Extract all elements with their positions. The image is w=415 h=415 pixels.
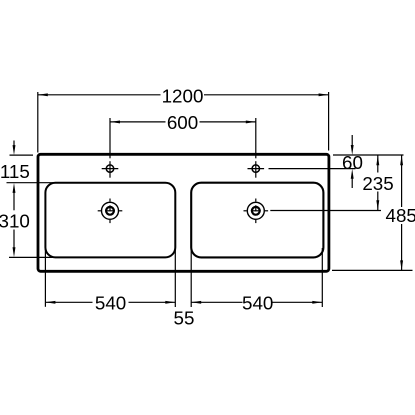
- left tap hole: [102, 161, 119, 178]
- 115 dimension line segments: [13, 141, 15, 148]
- svg-text:115: 115: [0, 161, 30, 182]
- arrowheads: [13, 93, 404, 303]
- 60 lower line from right tap hole: [269, 168, 356, 170]
- bottom extension lines: [44, 249, 46, 307]
- svg-text:235: 235: [362, 173, 393, 194]
- 310 dimension line segments: [13, 189, 15, 210]
- 235 arrows: [376, 155, 379, 165]
- bottom right reference line: [332, 269, 413, 271]
- 600 extension lines: [109, 118, 111, 158]
- 600 dimension line: [110, 121, 166, 123]
- 310 arrows: [13, 183, 16, 193]
- svg-text:60: 60: [342, 152, 363, 173]
- svg-text:55: 55: [174, 307, 195, 328]
- 1200 dimension line: [38, 94, 161, 96]
- left bowl: [45, 183, 175, 258]
- 60 arrows (outside): [351, 145, 354, 155]
- left reference ticks: [10, 154, 34, 156]
- 1200 extension lines: [37, 92, 39, 153]
- drain level reference line: [270, 210, 381, 212]
- right drain hole: [244, 199, 269, 224]
- right top reference line: [333, 154, 404, 156]
- bottom dimension line 540 left: [45, 301, 92, 303]
- basin outer rim: [38, 154, 329, 271]
- right tap hole: [248, 161, 265, 178]
- left drain hole: [98, 199, 123, 224]
- 600: [110, 120, 120, 123]
- 540 right arrows: [191, 301, 201, 304]
- 1200: [38, 93, 48, 96]
- 485 arrows: [400, 155, 403, 165]
- 60 dimension arrows lines: [351, 135, 353, 148]
- svg-text:540: 540: [242, 293, 273, 314]
- right bowl: [191, 183, 323, 258]
- bottom dimension line 540 right: [191, 301, 242, 303]
- svg-text:310: 310: [0, 211, 30, 232]
- 235 dimension line: [377, 155, 379, 172]
- 485 dimension line: [401, 155, 403, 207]
- svg-text:540: 540: [95, 293, 126, 314]
- dimension linework: [7, 92, 413, 307]
- 115 outside arrows: [13, 145, 16, 155]
- svg-text:485: 485: [386, 205, 415, 226]
- 540 left arrows: [45, 301, 55, 304]
- svg-text:1200: 1200: [162, 85, 204, 106]
- svg-text:600: 600: [167, 112, 198, 133]
